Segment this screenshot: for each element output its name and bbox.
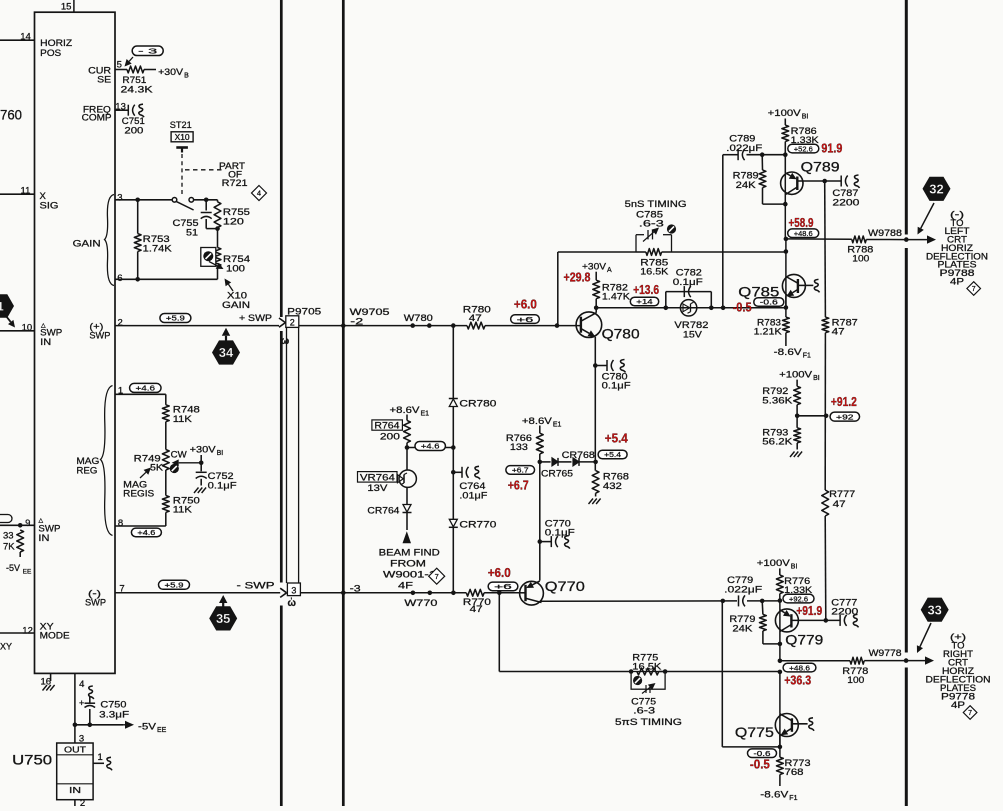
- svg-text:760: 760: [0, 108, 22, 123]
- svg-text:CR765: CR765: [541, 469, 573, 480]
- svg-text:120: 120: [223, 217, 244, 228]
- svg-text:IN: IN: [69, 785, 81, 795]
- svg-text:SIG: SIG: [40, 201, 59, 212]
- svg-text:200: 200: [380, 432, 400, 443]
- svg-text:+52.6: +52.6: [794, 144, 813, 153]
- svg-text:0.1μF: 0.1μF: [208, 481, 237, 492]
- svg-text:7: 7: [968, 710, 972, 717]
- svg-text:2: 2: [118, 318, 123, 329]
- svg-text:+30V: +30V: [190, 445, 217, 456]
- svg-text:.022μF: .022μF: [726, 143, 762, 154]
- svg-text:W770: W770: [404, 598, 437, 609]
- svg-text:+58.9: +58.9: [789, 215, 814, 230]
- svg-text:F1: F1: [803, 353, 811, 360]
- svg-text:-5V: -5V: [6, 563, 20, 573]
- svg-text:CR770: CR770: [459, 520, 496, 531]
- svg-text:5πS TIMING: 5πS TIMING: [615, 717, 682, 728]
- svg-text:X10: X10: [175, 133, 191, 142]
- svg-text:': ': [291, 596, 293, 606]
- svg-text:+8.6V: +8.6V: [522, 416, 553, 427]
- svg-text:W9001-1: W9001-1: [383, 570, 436, 581]
- svg-text:100: 100: [852, 254, 869, 265]
- svg-text:13V: 13V: [367, 483, 388, 494]
- svg-text:8: 8: [118, 518, 123, 529]
- svg-text:1.74K: 1.74K: [143, 244, 173, 255]
- svg-text:5K: 5K: [150, 463, 164, 474]
- svg-text:11K: 11K: [173, 414, 193, 425]
- svg-text:CR780: CR780: [459, 399, 496, 410]
- svg-text:51: 51: [186, 228, 198, 239]
- svg-text:.022μF: .022μF: [724, 585, 762, 596]
- svg-text:Q785: Q785: [738, 285, 779, 300]
- svg-text:47: 47: [470, 604, 483, 615]
- svg-text:E1: E1: [421, 411, 430, 418]
- svg-text:-8.6V: -8.6V: [760, 790, 789, 801]
- svg-text:COMP: COMP: [82, 113, 112, 124]
- svg-text:GAIN: GAIN: [73, 239, 101, 250]
- svg-text:-0.5: -0.5: [750, 757, 770, 772]
- svg-text:+100V: +100V: [779, 370, 813, 381]
- svg-text:15V: 15V: [683, 330, 703, 341]
- svg-text:R721: R721: [222, 178, 248, 189]
- svg-text:12: 12: [22, 626, 33, 637]
- svg-text:+4.6: +4.6: [137, 528, 155, 537]
- svg-text:+48.6: +48.6: [789, 663, 810, 672]
- svg-text:24.3K: 24.3K: [121, 85, 154, 96]
- svg-text:+: +: [79, 698, 84, 708]
- svg-text:+48.6: +48.6: [794, 229, 813, 238]
- svg-text:2: 2: [290, 317, 295, 327]
- svg-text:+30V: +30V: [158, 67, 184, 78]
- svg-text:Q779: Q779: [785, 633, 823, 648]
- svg-text:100: 100: [847, 675, 864, 686]
- svg-text:EE: EE: [23, 569, 32, 576]
- svg-text:7: 7: [972, 286, 976, 293]
- svg-text:2200: 2200: [831, 607, 858, 618]
- svg-text:-8.6V: -8.6V: [774, 347, 803, 358]
- svg-text:W9778: W9778: [869, 648, 902, 659]
- svg-text:+ SWP: + SWP: [239, 313, 272, 324]
- svg-text:+14: +14: [636, 297, 652, 306]
- svg-text:24K: 24K: [732, 624, 753, 635]
- svg-text:+100V: +100V: [757, 558, 791, 569]
- svg-text:+5.9: +5.9: [166, 314, 185, 323]
- svg-text:+4.6: +4.6: [136, 384, 156, 393]
- svg-text:6: 6: [117, 273, 122, 284]
- svg-text:.01μF: .01μF: [459, 491, 487, 502]
- svg-text:SE: SE: [97, 75, 111, 86]
- svg-text:3: 3: [117, 193, 122, 204]
- svg-text:+91.2: +91.2: [831, 394, 857, 409]
- svg-text:432: 432: [603, 481, 622, 492]
- svg-text:4: 4: [79, 679, 84, 690]
- svg-text:7K: 7K: [3, 542, 15, 553]
- svg-text:A: A: [607, 267, 612, 274]
- svg-text:MODE: MODE: [40, 631, 70, 642]
- svg-text:+5.4: +5.4: [604, 450, 621, 459]
- svg-text:Q770: Q770: [545, 579, 585, 594]
- svg-text:+4.6: +4.6: [421, 442, 440, 451]
- svg-text:CR768: CR768: [562, 450, 595, 461]
- svg-text:0.1μF: 0.1μF: [602, 381, 631, 392]
- svg-text:200: 200: [124, 126, 143, 137]
- svg-text:.6-3: .6-3: [639, 219, 664, 230]
- svg-text:4: 4: [257, 189, 261, 198]
- svg-text:W9788: W9788: [868, 228, 902, 239]
- svg-text:0.1μF: 0.1μF: [545, 528, 575, 539]
- svg-text:2: 2: [80, 798, 85, 806]
- svg-text:14: 14: [20, 32, 31, 43]
- svg-text:-2: -2: [350, 317, 363, 328]
- svg-text:91.9: 91.9: [821, 141, 842, 156]
- svg-text:+5.9: +5.9: [165, 581, 184, 590]
- svg-text:100: 100: [226, 264, 245, 275]
- svg-text:7: 7: [435, 572, 439, 581]
- svg-text:P9705: P9705: [287, 307, 321, 318]
- svg-text:-5V: -5V: [138, 722, 157, 733]
- svg-text:4F: 4F: [398, 581, 413, 592]
- svg-text:Q775: Q775: [735, 725, 774, 740]
- svg-text:+91.9: +91.9: [796, 603, 822, 618]
- svg-text:BEAM FIND: BEAM FIND: [379, 548, 440, 559]
- svg-text:10: 10: [22, 323, 33, 334]
- svg-text:Q780: Q780: [602, 327, 640, 342]
- svg-text:+8.6V: +8.6V: [390, 405, 421, 416]
- svg-text:0.1μF: 0.1μF: [673, 277, 703, 288]
- svg-text:+6.0: +6.0: [514, 297, 537, 312]
- svg-text:FROM: FROM: [390, 559, 426, 570]
- svg-text:E1: E1: [553, 422, 562, 429]
- svg-text:EE: EE: [157, 727, 167, 734]
- svg-text:+29.8: +29.8: [564, 270, 591, 285]
- svg-text:+6.7: +6.7: [508, 478, 529, 493]
- svg-text:+92.6: +92.6: [789, 594, 808, 603]
- svg-text:BI: BI: [813, 375, 820, 382]
- svg-text:1.21K: 1.21K: [754, 327, 783, 338]
- svg-text:133: 133: [510, 442, 528, 453]
- svg-text:4P: 4P: [950, 276, 964, 286]
- svg-text:XY: XY: [0, 642, 13, 653]
- svg-text:R764: R764: [374, 420, 399, 430]
- svg-text:SWP: SWP: [89, 331, 110, 342]
- svg-text:3.3μF: 3.3μF: [99, 710, 129, 721]
- svg-text:-3: -3: [350, 584, 361, 595]
- svg-text:CW: CW: [171, 450, 187, 461]
- svg-text:SWP: SWP: [85, 598, 106, 609]
- svg-text:CR764: CR764: [367, 506, 399, 516]
- svg-text:1: 1: [0, 299, 4, 313]
- svg-text:33: 33: [3, 531, 14, 542]
- svg-text:35: 35: [216, 611, 230, 626]
- svg-text:- SWP: - SWP: [237, 581, 275, 592]
- svg-text:5nS TIMING: 5nS TIMING: [625, 199, 687, 210]
- svg-text:-0.5: -0.5: [733, 300, 752, 315]
- svg-text:768: 768: [785, 767, 804, 778]
- svg-text:- 3: - 3: [138, 47, 157, 56]
- svg-text:+6: +6: [517, 315, 534, 324]
- svg-text:1.47K: 1.47K: [602, 292, 631, 303]
- svg-text:+6.0: +6.0: [488, 565, 511, 580]
- svg-text:56.2K: 56.2K: [762, 437, 793, 448]
- svg-text:U750: U750: [12, 753, 52, 768]
- svg-text:16.5K: 16.5K: [640, 267, 669, 278]
- svg-text:+13.6: +13.6: [633, 282, 659, 297]
- svg-text:B: B: [184, 73, 189, 80]
- svg-text:ST21: ST21: [170, 120, 192, 131]
- svg-text:9: 9: [25, 518, 30, 529]
- svg-text:2200: 2200: [832, 198, 859, 209]
- svg-text:24K: 24K: [736, 180, 757, 191]
- svg-text:11: 11: [21, 186, 31, 197]
- svg-text:15: 15: [61, 2, 72, 13]
- svg-text:11K: 11K: [173, 505, 193, 516]
- svg-text:4P: 4P: [951, 700, 965, 710]
- svg-text:34: 34: [219, 345, 234, 360]
- svg-text:BI: BI: [217, 450, 224, 457]
- svg-text:REGIS: REGIS: [123, 489, 154, 500]
- svg-text:Q789: Q789: [801, 160, 840, 175]
- svg-text:16.5K: 16.5K: [632, 662, 662, 673]
- svg-text:BI: BI: [802, 114, 809, 121]
- svg-text:47: 47: [832, 327, 845, 338]
- svg-text:+100V: +100V: [768, 108, 802, 119]
- svg-text:IN: IN: [38, 533, 49, 544]
- svg-text:47: 47: [469, 313, 482, 324]
- svg-text:5.36K: 5.36K: [762, 396, 793, 407]
- svg-text:33: 33: [927, 602, 941, 617]
- svg-text:GAIN: GAIN: [222, 300, 250, 311]
- svg-text:REG: REG: [76, 466, 97, 477]
- svg-text:BI: BI: [791, 564, 798, 571]
- svg-text:W780: W780: [404, 313, 433, 324]
- svg-text:+6.7: +6.7: [512, 466, 529, 475]
- svg-text:F1: F1: [789, 795, 797, 802]
- svg-text:POS: POS: [40, 48, 61, 59]
- svg-text:32: 32: [929, 181, 943, 196]
- svg-text:3: 3: [291, 585, 296, 595]
- svg-text:ω: ω: [281, 336, 290, 347]
- svg-text:+36.3: +36.3: [784, 673, 811, 688]
- svg-text:+6: +6: [494, 582, 512, 591]
- svg-text:+92: +92: [836, 412, 854, 421]
- svg-text:47: 47: [833, 499, 846, 510]
- svg-text:+5.4: +5.4: [605, 431, 629, 446]
- svg-text:1: 1: [98, 752, 103, 763]
- svg-text:.6-3: .6-3: [633, 706, 655, 717]
- svg-text:VR764: VR764: [360, 472, 395, 482]
- svg-text:IN: IN: [40, 337, 51, 348]
- svg-text:OUT: OUT: [64, 745, 86, 755]
